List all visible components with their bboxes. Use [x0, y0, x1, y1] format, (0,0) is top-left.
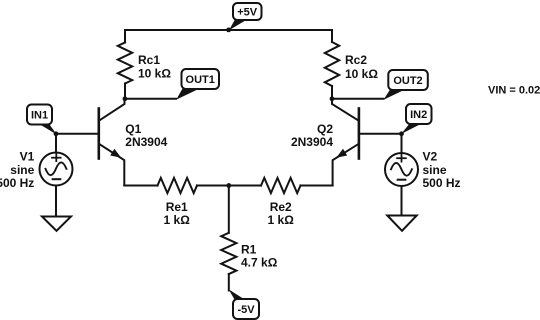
- svg-text:IN2: IN2: [410, 109, 427, 121]
- svg-text:-5V: -5V: [237, 304, 255, 316]
- svg-text:sine: sine: [10, 163, 34, 177]
- svg-text:Q1: Q1: [125, 122, 141, 136]
- svg-text:500 Hz: 500 Hz: [423, 176, 461, 190]
- resistor Re2: [261, 178, 301, 193]
- svg-text:Q2: Q2: [317, 122, 333, 136]
- svg-text:+5V: +5V: [237, 6, 258, 18]
- net flag -5V: [229, 289, 259, 319]
- svg-text:2N3904: 2N3904: [291, 135, 333, 149]
- label Re1 value: [164, 200, 191, 227]
- resistor Rc1: [118, 43, 132, 84]
- wire Q2 base: [359, 133, 402, 135]
- wire Rc1 bottom to collector node: [124, 84, 126, 99]
- node dot collector Q2: [330, 96, 335, 101]
- net flag IN1: [27, 105, 57, 135]
- svg-text:10 kΩ: 10 kΩ: [345, 67, 378, 81]
- transistor Q2: [332, 99, 359, 186]
- label Re2 value: [268, 200, 295, 227]
- svg-text:2N3904: 2N3904: [125, 135, 167, 149]
- svg-text:Rc2: Rc2: [345, 53, 367, 67]
- label Q1 2N3904: [125, 122, 167, 149]
- wire R1 bottom: [228, 274, 230, 291]
- label Q2 2N3904: [291, 122, 333, 149]
- net flag OUT2: [384, 70, 428, 100]
- node dot base Q1 / IN1: [54, 131, 59, 136]
- ground left: [42, 217, 71, 231]
- node dot +5V rail: [226, 28, 231, 33]
- wire Q1 base: [56, 133, 99, 135]
- label V2 sine 500 Hz: [423, 149, 461, 190]
- node dot base Q2 / IN2: [399, 131, 404, 136]
- resistor Rc2: [325, 42, 339, 86]
- svg-text:4.7 kΩ: 4.7 kΩ: [241, 256, 278, 270]
- wire R1 top: [228, 186, 230, 233]
- svg-text:OUT1: OUT1: [186, 74, 215, 86]
- wire top rail +5V: [125, 30, 332, 43]
- resistor Re1: [158, 178, 198, 193]
- net flag +5V: [229, 3, 262, 30]
- svg-text:IN1: IN1: [31, 110, 48, 122]
- ground right: [387, 216, 416, 231]
- node dot collector Q1: [123, 96, 128, 101]
- svg-text:OUT2: OUT2: [393, 75, 422, 87]
- label Rc2 value: [345, 53, 378, 81]
- svg-text:VIN = 0.02: VIN = 0.02: [488, 84, 540, 96]
- svg-text:1 kΩ: 1 kΩ: [268, 213, 295, 227]
- svg-text:Re2: Re2: [270, 200, 292, 214]
- source V2: [385, 134, 418, 215]
- svg-text:V1: V1: [20, 149, 35, 163]
- svg-text:sine: sine: [423, 163, 447, 177]
- wire emitter rail left: [124, 185, 157, 187]
- svg-text:R1: R1: [241, 242, 257, 256]
- svg-text:10 kΩ: 10 kΩ: [138, 66, 171, 80]
- node dot emitter rail / R1: [226, 183, 231, 188]
- net flag OUT1: [176, 69, 219, 100]
- svg-text:Rc1: Rc1: [138, 53, 160, 67]
- label R1 value: [241, 242, 278, 269]
- source V1: [40, 134, 73, 216]
- resistor R1: [221, 233, 236, 274]
- svg-text:1 kΩ: 1 kΩ: [164, 213, 191, 227]
- svg-text:Re1: Re1: [166, 200, 188, 214]
- net flag IN2: [401, 104, 431, 134]
- label V1 sine 500 Hz: [0, 149, 35, 190]
- wire Rc2 bottom to collector node: [331, 86, 333, 99]
- wire emitter rail center: [197, 185, 261, 187]
- label Rc1 value: [138, 53, 171, 81]
- transistor Q1: [99, 99, 125, 186]
- wire OUT2 stub: [332, 98, 384, 100]
- wire emitter rail right: [301, 185, 333, 187]
- svg-text:V2: V2: [423, 149, 438, 163]
- wire OUT1 stub: [125, 98, 176, 100]
- svg-text:500 Hz: 500 Hz: [0, 176, 34, 190]
